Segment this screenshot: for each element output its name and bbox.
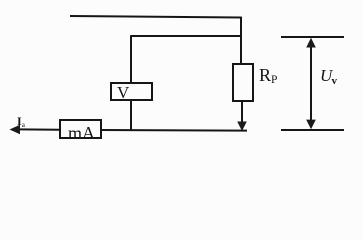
arrowhead Ia pointing left <box>10 125 21 134</box>
wire bottom rail left segment <box>19 128 60 130</box>
svg-text:v: v <box>332 75 338 87</box>
label Uv <box>320 66 338 87</box>
wire right vertical drop to RP <box>240 17 242 65</box>
svg-text:Ia: Ia <box>17 114 26 129</box>
wire second rail <box>131 35 242 37</box>
arrowhead Uv up <box>306 38 316 48</box>
resistor RP <box>233 64 253 101</box>
wire top rail <box>70 16 241 18</box>
wire RP bottom lead <box>241 101 243 123</box>
Uv top reference line <box>281 36 344 38</box>
svg-text:RP: RP <box>259 65 277 86</box>
arrowhead RP to bottom rail <box>237 122 247 132</box>
svg-text:mA: mA <box>68 123 95 143</box>
ammeter mA <box>60 120 101 143</box>
wire V top lead <box>130 35 132 84</box>
svg-text:V: V <box>117 83 130 102</box>
voltmeter V <box>111 83 152 102</box>
arrowhead Uv down <box>306 120 316 130</box>
Uv bottom reference line <box>281 129 344 131</box>
Uv dimension arrow shaft <box>310 44 312 123</box>
wire V bottom lead <box>130 100 132 130</box>
wire bottom rail right segment <box>101 129 247 132</box>
